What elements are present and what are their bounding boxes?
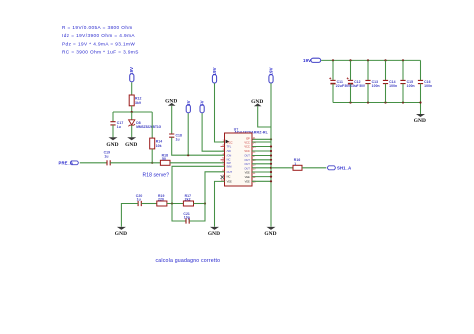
resistor R12 [129,95,141,106]
label PRE_A [59,161,79,166]
svg-text:OUT: OUT [244,162,250,166]
svg-text:GND: GND [208,231,220,237]
svg-text:INP: INP [227,161,232,165]
svg-text:10p: 10p [184,216,190,220]
wire IC VEE to G6 [215,181,225,226]
wire C19 to R18 [110,162,160,164]
svg-text:R18 serve?: R18 serve? [143,173,170,179]
junction bus row 6 [270,163,272,165]
resistor R19 [157,194,167,206]
ground under C17 [106,137,118,148]
junction bus row 3 [270,150,272,152]
wire OUT stub 2 [252,159,271,161]
svg-text:INM: INM [227,165,232,169]
svg-text:VCC: VCC [227,140,233,144]
ground G7 [264,227,276,237]
wire R19 to R17, node [167,203,184,205]
capacitor C13 [365,60,379,102]
power port 5V P2 [200,100,205,112]
wire [420,84,422,103]
label SH1_A [327,166,351,171]
wire C17 to gnd [112,125,114,137]
wire [332,84,334,103]
ground G1 above C18 [165,99,177,106]
wire VCC stub 3 [252,150,271,152]
junction EP-bus [270,138,272,140]
wire [402,60,404,80]
wire P3 to IC pin VCC [215,83,225,142]
svg-text:VEE: VEE [245,175,250,179]
wire node to IC pin INM [172,166,225,203]
note text block [62,25,139,55]
svg-text:OUT: OUT [244,154,250,158]
junction bus row 5 [270,159,272,161]
junction bottom rail corner [419,101,421,103]
svg-text:TFL: TFL [227,145,232,149]
svg-text:NC: NC [227,158,231,162]
power port 19V P3 [212,67,217,83]
wire rail to C17 [112,112,114,122]
junction top rail C15 [402,59,404,61]
junction bottom rail C15 [402,101,404,103]
svg-text:SH1_A: SH1_A [337,166,351,171]
node feedback right [204,202,206,204]
wire rail above C17/D8/R14 [113,111,152,113]
node rail-D8 [131,111,133,113]
wire R12 to rail [131,106,133,112]
bottom rail [333,102,421,104]
svg-text:GND: GND [115,231,127,237]
wire OUT stub 1 [252,155,271,157]
wire G1 to C18 [171,106,173,134]
svg-text:22uF: 22uF [336,84,344,88]
wire P0 to R12 [131,82,133,95]
svg-text:GND: GND [125,142,137,148]
wire C21 to node right [189,204,205,222]
pin stubs TFL and NC [221,147,225,160]
svg-text:1u: 1u [137,198,141,202]
node R14-main [151,162,153,164]
svg-text:1: 1 [294,162,296,166]
wire [385,60,387,80]
wire R17 to node right [194,203,206,205]
svg-text:220: 220 [158,198,164,202]
junction top rail C13 [367,59,369,61]
svg-text:Pdz = 19V * 4.9mA = 93.1mW: Pdz = 19V * 4.9mA = 93.1mW [62,41,135,46]
wire [350,84,352,103]
zener diode D8 [128,112,161,129]
wire bus to R16 [271,167,293,169]
svg-text:100n: 100n [407,84,415,88]
svg-text:100n: 100n [372,84,380,88]
svg-text:RC = 3900 Ohm * 1uF = 3.9mS: RC = 3900 Ohm * 1uF = 3.9mS [62,50,139,55]
wire [367,84,369,103]
top rail junction nodes [332,59,334,61]
wire VEE stub 1 [252,171,271,173]
resistor R18 [160,153,170,165]
ground G2 for EP [251,99,263,106]
ground G6 [208,227,220,237]
no-connect X on NC pin [221,175,225,179]
resistor R14 [150,138,163,149]
svg-text:2k2: 2k2 [185,198,191,202]
svg-text:NC: NC [227,175,231,179]
power port 19V P4 [269,67,274,83]
junction bus row 10 [270,180,272,182]
node feedback left [171,202,173,204]
svg-text:GND: GND [414,118,426,124]
wire C18 to IC pin /ON [172,137,225,155]
svg-text:1u: 1u [176,137,180,141]
wire D8 to gnd [131,125,133,137]
power port 19V P5 horizontal [303,58,321,63]
wire PRE_A to C19 [80,162,107,164]
svg-text:1u: 1u [117,125,121,129]
wire node right up to IC pin OUT [205,172,225,204]
capacitor C16 [418,60,432,102]
junction bus row 9 [270,176,272,178]
op-amp U? ADA4870 [221,127,269,186]
svg-text:50: 50 [162,157,166,161]
capacitor C17 [110,121,123,129]
svg-text:19V: 19V [303,58,311,63]
wire OUT stub 3 [252,163,271,165]
wire [332,60,334,80]
svg-text:GND: GND [106,142,118,148]
ground G5 [115,227,127,237]
svg-text:/SD: /SD [227,149,231,153]
junction bottom rail C14 [384,101,386,103]
wire VCC stub 2 [252,146,271,148]
wire [420,60,422,80]
capacitor C15 [400,60,414,102]
capacitor C19 [104,150,111,165]
svg-text:VCC: VCC [244,145,250,149]
wire [350,60,352,80]
wire [367,60,369,80]
svg-text:GND: GND [264,231,276,237]
svg-text:calcola guadagno corretto: calcola guadagno corretto [156,258,221,264]
svg-text:100n: 100n [424,84,432,88]
junction bus row 8 [270,171,272,173]
wire [402,84,404,103]
power port 19V P0 [129,67,134,82]
svg-text:VEE: VEE [245,180,250,184]
wire rail to R14 [151,112,153,138]
svg-text:OUT: OUT [244,166,250,170]
ground G8 [414,114,426,124]
wire C20 to R19 [141,203,157,205]
svg-text:100n: 100n [389,84,397,88]
wire R16 to SH1_A [302,167,326,169]
wire VEE stub 2 [252,176,271,178]
junction top rail C14 [384,59,386,61]
svg-text:MMSZ5226BT1G: MMSZ5226BT1G [136,125,161,129]
wire P2 to IC pin /SD [202,113,224,151]
svg-text:VEE: VEE [245,171,250,175]
wire R14 to main wire [151,149,153,163]
wire VEE stub 3 [252,180,271,182]
svg-text:VEE: VEE [227,180,232,184]
svg-text:10k: 10k [156,144,162,148]
IC right pin stubs to bus [252,141,271,143]
wire P1 down [187,113,189,155]
wire G2 to EP pin [258,106,271,127]
capacitor C14 [383,60,397,102]
junction bus row 7 [270,167,272,169]
resistor R17 [183,194,193,206]
svg-text:EP: EP [246,137,250,141]
svg-text:50V/10uF 50V: 50V/10uF 50V [345,84,366,88]
svg-text:OUT: OUT [244,158,250,162]
wire [385,84,387,103]
bus junction nodes [270,145,272,147]
svg-text:OUT: OUT [227,170,233,174]
svg-text:VCC: VCC [244,140,250,144]
junction bottom rail C13 [367,101,369,103]
junction bottom rail C12 [349,101,351,103]
resistor R16 [293,158,302,170]
wire C20 left to G5 [121,204,138,227]
wire EP pin to bus [252,138,271,140]
wire rail to D8 [131,112,133,120]
capacitor C11 polarized [329,60,344,102]
capacitor C18 [169,133,182,141]
svg-text:/ON: /ON [227,153,232,157]
svg-text:R14: R14 [156,140,163,144]
svg-text:Idz = 19V/3900 Ohm = 4.9mA: Idz = 19V/3900 Ohm = 4.9mA [62,33,135,38]
node P1 wire [187,154,189,156]
capacitor C21 parallel loop [172,204,186,222]
junction top rail C12 [349,59,351,61]
power port 5V P1 [186,100,191,112]
svg-text:1u: 1u [104,154,108,158]
svg-text:R = 19V/0.005A = 3800 Ohm: R = 19V/0.005A = 3800 Ohm [62,25,133,30]
junction bus row 4 [270,154,272,156]
wire R18 to IC pin INP [170,162,225,164]
capacitor C12 polarized [345,60,366,102]
wire OUT stub 4 [252,167,271,169]
wire P5 to cap bank top rail [321,59,420,61]
wire bottom rail to G8 [420,103,422,115]
ground under D8 [125,137,137,148]
capacitor C20 [136,194,143,206]
svg-text:VCC: VCC [244,149,250,153]
svg-text:R12: R12 [135,97,142,101]
svg-text:3k9: 3k9 [135,101,141,105]
wire P4 right bus down to G7 [270,83,272,227]
